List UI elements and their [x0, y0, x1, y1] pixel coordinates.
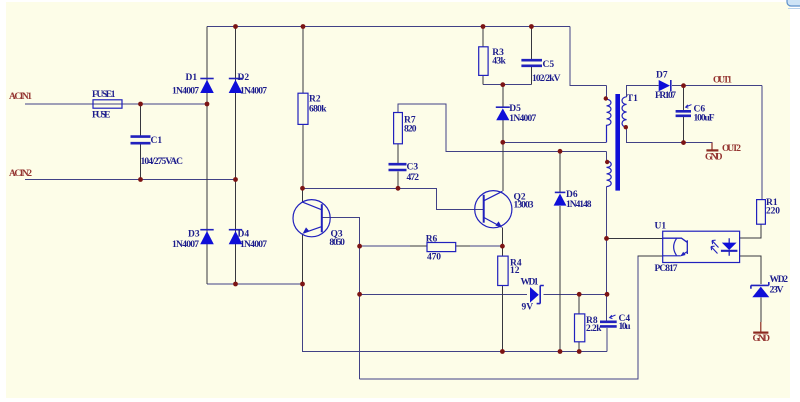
- node bottom rail R4: [500, 349, 505, 354]
- resistor R8: [575, 314, 585, 342]
- ground symbol at OUT2: [706, 143, 718, 151]
- wire aux bottom to C4 column: [606, 187, 608, 352]
- capacitor C6 polarized: [676, 111, 691, 116]
- node top rail C5: [529, 24, 534, 29]
- svg-text:1N4007: 1N4007: [240, 240, 267, 250]
- wire aux feed path: [398, 104, 607, 151]
- svg-text:12: 12: [510, 266, 520, 276]
- svg-text:1N4007: 1N4007: [172, 240, 199, 250]
- wire Q3 collector node to C3 node to Q2 base: [303, 188, 483, 209]
- svg-text:D2: D2: [238, 73, 250, 83]
- wire Q2 collector lead: [502, 142, 504, 191]
- transformer T1 primary coil: [607, 99, 612, 142]
- wire Q2 emitter lead: [501, 228, 503, 247]
- node bridge bottom Q3 emitter: [300, 282, 305, 287]
- node aux-U1 pin: [604, 236, 609, 241]
- wire R3-C5 bottom row: [483, 84, 531, 86]
- corner button top-right: [787, 0, 800, 9]
- node Q3 base R6: [357, 244, 362, 249]
- node T1 secondary polarity dot: [624, 125, 628, 129]
- wire OUT1 drop to R1: [761, 86, 763, 200]
- svg-text:T1: T1: [627, 94, 638, 104]
- svg-text:U1: U1: [655, 222, 667, 232]
- wire U1 top-left pin: [607, 237, 663, 239]
- wire C1 leads: [140, 104, 142, 180]
- svg-text:2.2k: 2.2k: [586, 324, 602, 334]
- capacitor C3: [389, 164, 407, 170]
- svg-text:9V: 9V: [522, 303, 534, 313]
- opto U1 led: [721, 238, 738, 256]
- svg-text:1N4007: 1N4007: [509, 114, 536, 124]
- svg-text:C3: C3: [407, 163, 419, 173]
- node Q2 emitter R6 R4: [500, 244, 505, 249]
- capacitor C4 polarized: [600, 322, 617, 327]
- node top rail R3: [481, 24, 486, 29]
- svg-text:WD2: WD2: [770, 275, 789, 285]
- diode D4: [229, 230, 243, 245]
- node D7-C6-OUT1: [681, 83, 686, 88]
- node ACIN1-D1 junction: [205, 102, 210, 107]
- svg-text:FR107: FR107: [655, 91, 676, 101]
- svg-text:D1: D1: [186, 73, 198, 83]
- svg-text:C5: C5: [543, 60, 555, 70]
- wire R6 row: [360, 245, 503, 247]
- svg-text:FUSE: FUSE: [92, 111, 111, 121]
- node D5-primary-Q2 collector: [500, 140, 505, 145]
- wire Q3 emitter lead: [302, 234, 304, 285]
- wire U1 bottom-right pin to WD2: [740, 256, 761, 284]
- node top rail R2: [301, 24, 306, 29]
- capacitor C4 plus mark: [610, 315, 616, 319]
- node T1 aux polarity dot: [605, 160, 609, 164]
- wire Q3 collector lead: [302, 188, 304, 201]
- node fuse-C1 junction: [138, 102, 143, 107]
- resistor R2: [298, 93, 308, 124]
- svg-text:8050: 8050: [329, 238, 345, 248]
- diode D6: [554, 192, 567, 205]
- node R8 top: [577, 292, 582, 297]
- capacitor C5: [521, 60, 542, 66]
- resistor R3: [479, 47, 488, 76]
- wire R6 pin stubs: [410, 245, 470, 247]
- wire D6 leads: [559, 151, 561, 351]
- diode D3: [200, 230, 214, 245]
- svg-text:FUSE1: FUSE1: [92, 90, 116, 100]
- node ACIN2-D2 junction: [233, 177, 238, 182]
- transistor Q2: [475, 191, 512, 228]
- wire ACIN2: [25, 179, 236, 181]
- capacitor C6 plus mark: [686, 105, 692, 109]
- svg-text:R6: R6: [426, 235, 438, 245]
- svg-text:D4: D4: [238, 230, 250, 240]
- node C6 bottom OUT2: [681, 140, 686, 145]
- svg-text:WD1: WD1: [521, 278, 539, 288]
- svg-text:13003: 13003: [514, 201, 534, 211]
- wire U1 bottom-left pin loop to Q3 base: [360, 256, 640, 379]
- wire R2 column: [302, 27, 304, 189]
- opto U1 phototransistor: [663, 238, 688, 256]
- svg-text:220: 220: [766, 207, 780, 217]
- svg-text:GND: GND: [705, 153, 723, 163]
- diode D2: [229, 79, 243, 94]
- wire R4 leads: [501, 246, 503, 351]
- svg-text:23V: 23V: [770, 286, 784, 296]
- svg-text:1N4007: 1N4007: [240, 87, 267, 97]
- svg-text:D5: D5: [509, 104, 521, 114]
- transformer T1 aux coil: [607, 161, 612, 187]
- ground symbol under WD2: [753, 322, 768, 333]
- wire WD1 row: [360, 293, 607, 295]
- svg-text:10u: 10u: [619, 322, 632, 332]
- svg-text:R2: R2: [309, 95, 321, 105]
- diode D7: [659, 80, 671, 91]
- transistor Q3: [293, 200, 330, 237]
- svg-text:PC817: PC817: [655, 264, 678, 274]
- svg-text:470: 470: [427, 252, 441, 262]
- wire D5 leads: [502, 85, 504, 143]
- svg-text:680k: 680k: [309, 105, 327, 115]
- wire R3 leads: [482, 27, 484, 85]
- wire D7 anode stub: [658, 85, 659, 87]
- wire U1 bottom-left pin stub: [638, 255, 663, 257]
- zener WD2: [751, 282, 769, 297]
- svg-text:ACIN1: ACIN1: [9, 92, 32, 102]
- wire primary coil stub: [606, 86, 608, 99]
- zener WD1: [530, 286, 544, 304]
- wire aux top lead: [606, 151, 608, 161]
- svg-text:100uF: 100uF: [694, 114, 715, 124]
- wire secondary top row: [627, 86, 658, 97]
- node bottom rail D6: [558, 349, 563, 354]
- wire C5 leads: [530, 27, 532, 85]
- wire ACIN1: [25, 103, 207, 105]
- wire D7 to OUT1: [672, 85, 762, 87]
- wire Q3 base run down: [323, 218, 360, 380]
- transformer T1 core: [615, 94, 620, 191]
- wire D2 D4 column: [235, 27, 237, 285]
- svg-text:43k: 43k: [492, 57, 506, 67]
- svg-text:OUT2: OUT2: [722, 144, 741, 154]
- svg-text:820: 820: [404, 125, 417, 135]
- node C4 top: [605, 292, 610, 297]
- svg-text:1N4148: 1N4148: [566, 200, 592, 210]
- svg-text:472: 472: [407, 173, 420, 183]
- opto U1 light arrows: [711, 240, 719, 253]
- diode D1: [200, 79, 214, 94]
- node C1-ACIN2 junction: [138, 177, 143, 182]
- wire R1 bottom link to U1: [740, 224, 761, 238]
- capacitor C1: [131, 137, 151, 144]
- fuse FUSE1: [93, 100, 122, 108]
- resistor R6: [427, 243, 456, 252]
- diode D5: [496, 107, 510, 120]
- svg-text:GND: GND: [753, 334, 771, 344]
- resistor R7: [394, 113, 403, 144]
- node R2-Q3 collector: [300, 186, 305, 191]
- wire C6 leads: [683, 86, 685, 143]
- wire top rail: [207, 26, 570, 28]
- wire top rail drop to primary: [570, 27, 607, 86]
- node T1 primary polarity dot: [604, 96, 608, 100]
- wire R7-C3 leads: [397, 144, 399, 189]
- resistor R4: [498, 256, 508, 285]
- node top rail D2: [233, 24, 238, 29]
- node R3-C5-D5: [500, 82, 505, 87]
- svg-text:D7: D7: [656, 71, 668, 81]
- wire secondary bottom row OUT2: [627, 127, 712, 149]
- svg-text:D3: D3: [188, 230, 200, 240]
- wire bridge bottom rail: [207, 284, 607, 352]
- svg-text:104/275VAC: 104/275VAC: [141, 157, 184, 167]
- wire D1 D3 column: [206, 27, 208, 285]
- svg-text:C1: C1: [151, 136, 163, 146]
- svg-text:OUT1: OUT1: [713, 76, 732, 86]
- svg-text:ACIN2: ACIN2: [9, 169, 32, 179]
- svg-text:D6: D6: [566, 190, 578, 200]
- svg-text:1N4007: 1N4007: [172, 87, 199, 97]
- opto U1 box: [663, 231, 740, 262]
- wire R8 leads: [578, 294, 580, 351]
- svg-text:102/2kV: 102/2kV: [532, 74, 561, 84]
- node aux line D6: [558, 149, 563, 154]
- resistor R1: [757, 200, 766, 225]
- node WD1 line start: [357, 292, 362, 297]
- node bottom rail R8: [577, 349, 582, 354]
- transformer T1 secondary coil: [622, 97, 627, 127]
- wire primary bottom row: [503, 141, 607, 143]
- node bridge bottom D4: [233, 282, 238, 287]
- wire WD2 anode lead: [760, 298, 762, 323]
- node C3 bottom: [396, 186, 401, 191]
